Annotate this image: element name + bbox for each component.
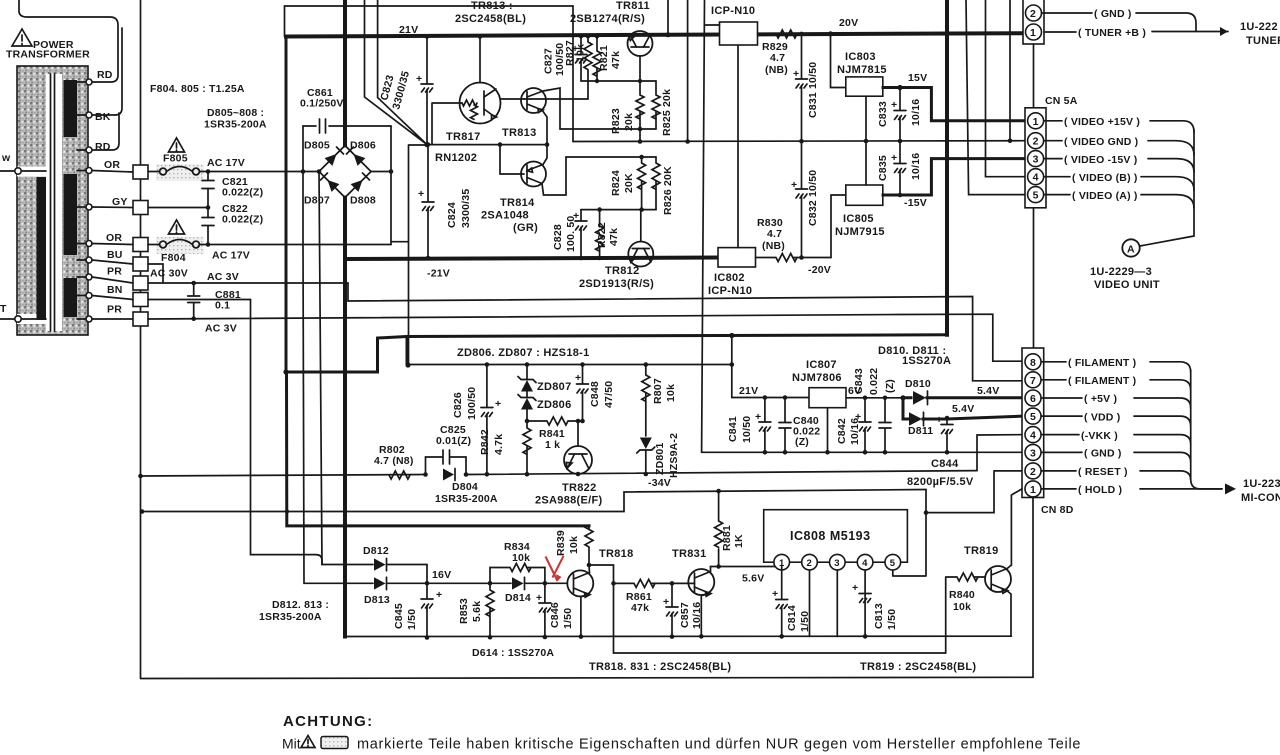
svg-text:D814: D814 <box>505 592 531 604</box>
terminal BK <box>86 111 111 123</box>
label D614 caption <box>472 647 554 659</box>
capacitor C831 <box>793 34 819 141</box>
capacitor C822 <box>202 203 263 245</box>
label TR819 <box>964 545 999 557</box>
warning triangle F804 <box>169 220 185 234</box>
resistor R840 <box>946 573 985 653</box>
wire GY line <box>148 205 210 210</box>
fuse F804 <box>148 237 391 264</box>
svg-text:10k: 10k <box>575 44 587 62</box>
fuse F805 <box>148 153 319 182</box>
svg-text:C857: C857 <box>679 602 691 628</box>
svg-text:AC 30V: AC 30V <box>150 268 188 280</box>
svg-text:( TUNER +B ): ( TUNER +B ) <box>1078 27 1146 39</box>
svg-text:NJM7815: NJM7815 <box>837 64 887 76</box>
label TR812 <box>579 265 654 290</box>
svg-text:R839: R839 <box>555 530 567 556</box>
label F804,805 T1.25A <box>150 83 245 95</box>
svg-text:2: 2 <box>1030 466 1036 478</box>
capacitor C835 <box>877 141 922 197</box>
wire 16V node <box>425 565 452 586</box>
svg-text:10k: 10k <box>568 536 580 554</box>
svg-text:IC805: IC805 <box>843 213 874 225</box>
wire top conn to CN5A <box>1033 44 1035 108</box>
connector pad PR2 <box>133 312 148 326</box>
transformer winding bars <box>37 80 78 320</box>
svg-text:CN 8D: CN 8D <box>1041 504 1074 516</box>
svg-text:IC803: IC803 <box>845 51 876 63</box>
label -20V <box>808 264 831 276</box>
svg-text:+: + <box>663 596 669 608</box>
svg-text:(NB): (NB) <box>762 240 785 252</box>
svg-text:TR818: TR818 <box>599 548 634 560</box>
svg-text:5.4V: 5.4V <box>952 403 974 415</box>
svg-text:1/50: 1/50 <box>562 608 574 629</box>
svg-text:C845: C845 <box>393 603 405 629</box>
diode D811 <box>903 398 1024 437</box>
svg-text:C831 10/50: C831 10/50 <box>807 62 819 118</box>
svg-text:+: + <box>575 372 581 384</box>
svg-text:IC802: IC802 <box>714 272 745 284</box>
regulator IC803 NJM7815 <box>837 51 887 96</box>
svg-text:3300/35: 3300/35 <box>460 189 472 228</box>
bus x704 to lower gnd <box>702 0 720 452</box>
capacitor C840 <box>779 398 820 455</box>
label C844 8200uF <box>907 458 974 488</box>
wire pin1 to TR819 <box>1011 489 1022 565</box>
wire node to zd rail vertical <box>391 145 426 365</box>
svg-text:AC 17V: AC 17V <box>207 157 245 169</box>
wire drop 21V to IC807 <box>731 336 733 398</box>
svg-text:+: + <box>772 588 778 600</box>
resistor R829 <box>758 30 1024 76</box>
label ICP-N10 top <box>711 5 755 17</box>
svg-text:4.7: 4.7 <box>770 52 785 64</box>
svg-text:D806: D806 <box>350 140 376 152</box>
bus x947 upper <box>945 0 949 120</box>
svg-text:C828: C828 <box>552 224 564 250</box>
pin 6 +5V <box>1025 390 1191 408</box>
svg-text:D808: D808 <box>350 195 376 207</box>
wire PR2 AC3V <box>148 314 1024 361</box>
svg-text:R826 20K: R826 20K <box>662 166 674 215</box>
svg-text:4: 4 <box>1030 430 1036 442</box>
pin 2 VIDEO GND <box>1028 133 1194 155</box>
svg-text:IC808 M5193: IC808 M5193 <box>790 529 871 543</box>
wire offpage pair to node <box>365 0 428 145</box>
svg-text:+: + <box>891 152 897 164</box>
svg-text:R822: R822 <box>596 222 608 248</box>
svg-text:ICP-N10: ICP-N10 <box>711 5 755 17</box>
svg-text:D805: D805 <box>304 140 330 152</box>
svg-text:TR814: TR814 <box>500 197 535 209</box>
wire reset path IC808 pin5 to pin2 <box>893 471 1025 576</box>
svg-text:1SR35-200A: 1SR35-200A <box>435 493 498 505</box>
svg-text:+: + <box>416 73 422 85</box>
svg-text:10/16: 10/16 <box>849 418 861 445</box>
transistor TR819 <box>985 565 1011 636</box>
capacitor C844 <box>936 414 953 455</box>
wire 16V line <box>427 581 492 586</box>
rail 21V <box>286 24 1023 37</box>
svg-text:(Z): (Z) <box>795 436 809 448</box>
svg-text:21V: 21V <box>739 385 758 397</box>
svg-text:R807: R807 <box>652 378 664 404</box>
svg-text:OR: OR <box>106 232 122 244</box>
transistor TR811 <box>628 31 653 81</box>
svg-text:C844: C844 <box>931 458 959 470</box>
svg-text:21V: 21V <box>399 24 418 36</box>
label POWER TRANSFORMER <box>6 39 90 61</box>
svg-text:+: + <box>436 589 442 601</box>
capacitor C813 <box>852 582 898 639</box>
resistor R826 <box>652 157 674 215</box>
capacitor C833 <box>877 88 922 144</box>
wire BK to off-page <box>89 28 122 115</box>
label 1U-222 TUNER <box>1240 21 1280 47</box>
svg-text:R824: R824 <box>610 170 622 196</box>
svg-text:ZD807: ZD807 <box>537 381 572 393</box>
terminal BU <box>86 249 133 264</box>
terminal RD2 <box>86 141 111 153</box>
pin 5 VIDEO (A) <box>1028 187 1194 208</box>
wire IC805 gnd pin <box>865 141 867 185</box>
svg-text:1SR35-200A: 1SR35-200A <box>259 611 322 623</box>
svg-text:0.022(Z): 0.022(Z) <box>222 187 263 199</box>
svg-text:+: + <box>495 398 501 410</box>
label AC 17V <box>207 157 245 169</box>
svg-text:D812. 813 :: D812. 813 : <box>272 599 329 611</box>
node A <box>1122 239 1139 256</box>
svg-text:4.7 (N8): 4.7 (N8) <box>374 455 414 467</box>
wire BN drop to D812 row <box>251 300 323 565</box>
svg-text:C814: C814 <box>786 605 798 631</box>
wire TR817 emitter to TR813 base <box>500 98 524 100</box>
svg-text:C843: C843 <box>853 368 865 394</box>
resistor R827 <box>564 34 592 99</box>
label D805~808 1SR35-200A <box>204 107 267 131</box>
wire IC803 gnd pin <box>864 96 869 143</box>
svg-text:D811: D811 <box>908 425 933 437</box>
svg-text:10/50: 10/50 <box>741 416 753 443</box>
svg-text:C846: C846 <box>549 602 561 628</box>
resistor R802 <box>374 444 414 479</box>
svg-text:2: 2 <box>1030 8 1036 20</box>
svg-text:( FILAMENT ): ( FILAMENT ) <box>1068 375 1136 387</box>
pin 3 VIDEO -15V <box>1028 151 1194 172</box>
diode D813 <box>364 577 427 606</box>
label D810 D811 1SS270A <box>878 345 951 367</box>
svg-text:( VDD ): ( VDD ) <box>1084 411 1120 423</box>
resistor R823 <box>610 81 644 134</box>
svg-text:1U-2229—3: 1U-2229—3 <box>1090 266 1152 278</box>
svg-text:5: 5 <box>1030 411 1036 423</box>
resistor R841 <box>527 417 585 451</box>
wire BN line <box>148 299 251 301</box>
svg-text:1U-222: 1U-222 <box>1240 21 1278 33</box>
svg-text:TR819 : 2SC2458(BL): TR819 : 2SC2458(BL) <box>860 661 976 673</box>
svg-text:( +5V ): ( +5V ) <box>1084 393 1117 405</box>
transformer core lines <box>51 74 55 331</box>
wire -VKK jog to pin4 <box>977 435 1025 471</box>
svg-text:GY: GY <box>112 196 128 208</box>
svg-text:3: 3 <box>1030 447 1036 459</box>
svg-text:1SS270A: 1SS270A <box>902 355 951 367</box>
svg-text:TR818. 831 : 2SC2458(BL): TR818. 831 : 2SC2458(BL) <box>589 661 731 673</box>
svg-text:100. 50: 100. 50 <box>565 216 577 252</box>
capacitor C848 <box>575 365 615 422</box>
wire AC1 vert to D812 <box>317 169 373 564</box>
wire RD2 to off-page <box>89 113 119 150</box>
svg-text:4.7: 4.7 <box>767 228 782 240</box>
protector IC802 ICP-N10 <box>708 248 756 297</box>
resistor R839 <box>555 525 593 567</box>
resistor R861 <box>611 579 674 614</box>
svg-text:-34V: -34V <box>648 477 671 489</box>
label ZD806 ZD807 HZS18-1 <box>457 347 590 359</box>
svg-text:CN 5A: CN 5A <box>1045 95 1078 107</box>
label TR813 <box>502 127 537 139</box>
diode D804 <box>435 469 498 506</box>
label -34V <box>648 477 671 489</box>
resistor R881 <box>715 489 745 567</box>
wire 21V branch to R839 <box>287 372 590 526</box>
svg-text:(GR): (GR) <box>513 222 538 234</box>
transistor TR818 <box>567 565 593 637</box>
svg-text:5.6V: 5.6V <box>742 573 764 585</box>
svg-text:R821: R821 <box>598 45 610 71</box>
svg-text:TR831: TR831 <box>672 548 707 560</box>
wire micro gnd rail <box>345 634 1011 639</box>
svg-text:TR811: TR811 <box>616 0 650 12</box>
bus x1010 to gnd <box>1009 0 1011 141</box>
label 1U-22 MI-CON <box>1241 478 1280 504</box>
diode D806 <box>347 140 376 166</box>
wire 21V left drop <box>283 37 288 375</box>
wire top link y6 <box>285 6 574 142</box>
svg-text:1: 1 <box>1030 484 1036 496</box>
svg-text:47k: 47k <box>608 228 620 246</box>
svg-text:10/16: 10/16 <box>910 99 922 126</box>
wire IC807 gnd pin <box>825 408 830 455</box>
wire TR811 base node <box>581 79 656 83</box>
label IC807 NJM7806 <box>792 359 842 384</box>
svg-text:IC807: IC807 <box>806 359 837 371</box>
capacitor C843 <box>853 368 896 455</box>
zener ZD807 <box>518 365 572 394</box>
svg-text:1 k: 1 k <box>545 439 560 451</box>
bridge diamond <box>319 146 391 198</box>
connector pad OR2 <box>133 238 148 252</box>
diode D805 <box>304 140 344 166</box>
svg-text:-15V: -15V <box>904 197 927 209</box>
label TR818 831 caption <box>589 661 731 673</box>
zener ZD801 <box>637 433 680 478</box>
svg-text:100/50: 100/50 <box>466 387 478 420</box>
svg-text:C833: C833 <box>877 101 889 127</box>
svg-text:+: + <box>791 179 797 191</box>
resistor R824 <box>610 157 646 210</box>
transistor TR812 <box>628 242 653 267</box>
IC808 pin 3 <box>830 554 846 636</box>
IC808 pin 4 <box>857 554 873 636</box>
svg-text:( VIDEO (B) ): ( VIDEO (B) ) <box>1072 172 1138 184</box>
IC808 pin 1 <box>774 554 790 570</box>
svg-text:R853: R853 <box>458 598 470 624</box>
resistor R825 <box>652 81 673 136</box>
wire IC803 input <box>828 31 846 87</box>
svg-text:10k: 10k <box>665 384 677 402</box>
connector CN8D <box>1022 348 1044 498</box>
terminal PR <box>86 266 133 284</box>
svg-text:( VIDEO +15V ): ( VIDEO +15V ) <box>1064 116 1140 128</box>
wire CN8D bottom to frame <box>1032 498 1034 678</box>
capacitor C857 <box>663 583 703 638</box>
label ACHTUNG body <box>282 736 1081 753</box>
label TR814 2SA1048 <box>481 197 538 234</box>
svg-text:3: 3 <box>1033 154 1039 166</box>
pin 5 VDD <box>1025 408 1191 426</box>
label TR822 2SA988 <box>535 482 603 507</box>
svg-text:+: + <box>936 414 942 426</box>
terminal RD <box>86 69 113 85</box>
svg-text:( GND ): ( GND ) <box>1084 448 1122 460</box>
svg-text:+: + <box>852 582 858 594</box>
capacitor C881 <box>188 283 241 319</box>
svg-text:2SD1913(R/S): 2SD1913(R/S) <box>579 278 654 290</box>
transistor TR822 <box>564 421 592 474</box>
svg-text:+: + <box>536 592 542 604</box>
connector pad GY <box>133 201 148 215</box>
label TR819 caption <box>860 661 976 673</box>
terminal PR2 <box>86 304 133 323</box>
svg-text:10k: 10k <box>512 552 530 564</box>
transistor TR831 <box>672 567 714 637</box>
svg-text:BN: BN <box>107 284 123 296</box>
svg-text:2: 2 <box>1033 136 1039 148</box>
capacitor C861 <box>303 119 391 133</box>
capacitor C832 <box>791 139 819 258</box>
wire gnd row y452 <box>702 451 1024 453</box>
svg-text:ZD801: ZD801 <box>654 442 666 475</box>
pin 1 VIDEO +15V <box>1028 113 1194 132</box>
svg-text:NJM7806: NJM7806 <box>792 372 842 384</box>
svg-text:w: w <box>1 152 11 164</box>
capacitor C826 <box>452 365 501 475</box>
svg-text:5.6k: 5.6k <box>471 601 483 622</box>
svg-text:10/16: 10/16 <box>910 153 922 180</box>
capacitor C841 <box>727 398 771 455</box>
svg-text:( GND ): ( GND ) <box>1094 8 1132 20</box>
svg-text:( RESET ): ( RESET ) <box>1078 466 1128 478</box>
svg-text:6: 6 <box>1030 393 1036 405</box>
svg-text:(NB): (NB) <box>765 64 788 76</box>
label TR831 <box>672 548 707 560</box>
svg-text:3: 3 <box>834 558 839 569</box>
svg-text:+: + <box>891 99 897 111</box>
svg-text:0.01(Z): 0.01(Z) <box>436 435 471 447</box>
terminal OR2 <box>86 232 133 247</box>
svg-text:ICP-N10: ICP-N10 <box>708 285 752 297</box>
pin 4 VIDEO (B) <box>1028 169 1194 190</box>
terminal BN <box>86 284 133 300</box>
zener ZD806 <box>518 392 572 422</box>
label TR818 <box>599 548 634 560</box>
capacitor C846 <box>536 583 574 639</box>
diode D814 <box>490 577 567 604</box>
svg-text:20K: 20K <box>623 173 635 193</box>
svg-text:5: 5 <box>1033 190 1039 202</box>
pin 3 GND <box>1025 444 1191 462</box>
svg-text:TR817: TR817 <box>446 131 481 143</box>
label CN 5A <box>1045 95 1078 107</box>
capacitor C827 <box>543 34 588 81</box>
bus bridge DC+ to top <box>343 0 348 146</box>
svg-text:(Z): (Z) <box>884 379 896 393</box>
svg-text:C835: C835 <box>877 155 889 181</box>
svg-text:1/50: 1/50 <box>406 609 418 630</box>
transformer T801 body <box>17 66 88 335</box>
svg-text:D804: D804 <box>452 481 478 493</box>
wire IC801-IC802 link <box>737 45 739 248</box>
svg-text:15V: 15V <box>908 72 927 84</box>
svg-text:2: 2 <box>807 558 812 569</box>
svg-text:RD: RD <box>95 141 111 153</box>
svg-text:D810: D810 <box>905 378 931 390</box>
svg-text:0.1/250V: 0.1/250V <box>300 98 344 110</box>
svg-text:R840: R840 <box>949 589 975 601</box>
svg-text:( VIDEO -15V ): ( VIDEO -15V ) <box>1064 154 1137 166</box>
wire GND label top <box>1042 8 1197 31</box>
wire -15V output <box>883 159 1025 209</box>
capacitor C828 <box>552 210 587 261</box>
svg-text:RN1202: RN1202 <box>435 152 477 164</box>
bottom frame <box>141 677 1033 678</box>
label D812 813 1SR35-200A <box>259 599 329 623</box>
wire AC2 vert to D813 <box>303 245 373 584</box>
svg-text:0.1: 0.1 <box>215 300 230 312</box>
node AC1-C821 <box>206 169 211 174</box>
svg-text:TR812: TR812 <box>605 265 640 277</box>
label 1U-2229-3 VIDEO UNIT <box>1090 266 1160 291</box>
svg-text:Mit: Mit <box>282 736 301 752</box>
svg-text:1: 1 <box>1033 116 1039 128</box>
svg-text:C824: C824 <box>446 202 458 228</box>
wire TR812 base node <box>581 207 656 241</box>
resistor R807 <box>642 365 677 437</box>
svg-text:R881: R881 <box>721 525 733 551</box>
transistor TR813 <box>521 88 546 113</box>
wire 21V to IC807 <box>732 385 809 400</box>
wire BU AC30V <box>148 264 188 283</box>
svg-text:TR819: TR819 <box>964 545 999 557</box>
svg-text:47k: 47k <box>610 51 622 69</box>
svg-text:C813: C813 <box>873 603 885 629</box>
svg-text:D812: D812 <box>363 545 389 557</box>
capacitor C814 <box>772 567 811 639</box>
wire R823 R825 bottom <box>560 127 656 144</box>
wire 21V staircase <box>286 337 407 373</box>
svg-text:BK: BK <box>95 111 111 123</box>
label 20V <box>839 17 858 29</box>
bus bridge DC- to -21V <box>343 198 347 637</box>
wire 15V output <box>883 72 1025 121</box>
protector IC801 ICP-N10 <box>720 22 758 45</box>
svg-text:( VIDEO GND ): ( VIDEO GND ) <box>1064 136 1138 148</box>
svg-text:C832 10/50: C832 10/50 <box>807 170 819 226</box>
warning triangle footer <box>301 736 315 748</box>
connector CN5A <box>1025 108 1046 208</box>
